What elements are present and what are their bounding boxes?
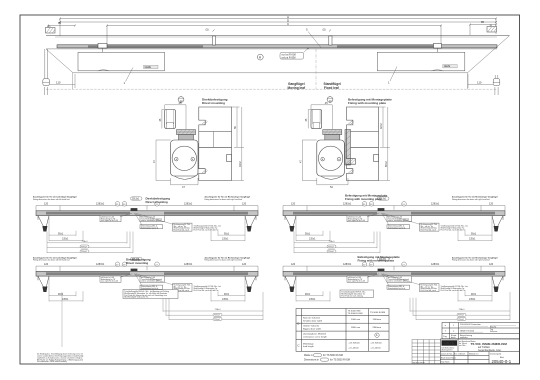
svg-text:C: C xyxy=(297,344,300,348)
left door edge vertical xyxy=(72,73,74,89)
svg-text:Die Wiedergabe u. Vervielfälti: Die Wiedergabe u. Vervielfältigung diese… xyxy=(37,352,83,355)
svg-text:718±2: 718±2 xyxy=(458,315,465,317)
revision underlines xyxy=(460,326,516,333)
detail L body circle xyxy=(172,146,196,170)
svg-text:only at R-ISM: only at R-ISM xyxy=(282,56,296,59)
svg-text:750±2: 750±2 xyxy=(458,319,465,321)
svg-text:47: 47 xyxy=(182,185,185,189)
right door edge vertical xyxy=(467,73,469,89)
svg-text:716±1: 716±1 xyxy=(459,309,466,311)
svg-text:Fixing with mounting plate: Fixing with mounting plate xyxy=(345,197,382,201)
svg-text:65±2: 65±2 xyxy=(384,161,388,167)
dimension line C xyxy=(107,25,441,27)
svg-text:GEZE: GEZE xyxy=(444,341,455,346)
svg-text:TS 500. ISM/E-ISM/R-ISM: TS 500. ISM/E-ISM/R-ISM xyxy=(471,342,508,346)
row1 left dim ovals xyxy=(80,245,89,253)
svg-text:45: 45 xyxy=(158,118,162,121)
detail R screw hole right xyxy=(337,157,341,161)
svg-text:Datum der Nor... W. 1.1 Glei: Datum der Nor... W. 1.1 Gleitsch xyxy=(441,353,465,356)
detail L top dim 45 xyxy=(165,105,186,129)
detail L rail cross-section xyxy=(165,110,176,129)
left post foot xyxy=(43,79,50,96)
svg-text:Fixed leaf: Fixed leaf xyxy=(324,86,340,90)
detail R screw hole left xyxy=(321,157,325,161)
svg-text:85: 85 xyxy=(58,21,62,25)
svg-text:= B-705mm: = B-705mm xyxy=(371,343,383,345)
svg-text:Fitting dimensions for doors w: Fitting dimensions for doors with left h… xyxy=(33,198,70,201)
svg-text:2800 mm: 2800 mm xyxy=(351,327,360,329)
frame head near bottom edge xyxy=(46,48,497,50)
fold mark line xyxy=(61,292,63,347)
svg-text:203-003-02 Datum/am: 203-003-02 Datum/am xyxy=(460,323,481,326)
svg-text:= B-705mm: = B-705mm xyxy=(349,343,361,345)
detail R left dim 45 xyxy=(308,110,311,129)
svg-text:Fitting dimensions for doors w: Fitting dimensions for doors with right … xyxy=(452,259,490,262)
detail R left dim 47 xyxy=(302,140,317,181)
svg-text:Wird Einindg 63 Gebrauchte Tw.: Wird Einindg 63 Gebrauchte Tw. xyxy=(124,296,149,299)
detail L bottom dim 47 xyxy=(171,178,199,185)
svg-text:Gegenbandseite, zwei.: Gegenbandseite, zwei. xyxy=(478,349,502,352)
svg-text:47: 47 xyxy=(298,160,302,163)
svg-text:Außengeführt: Außengeführt xyxy=(442,349,453,352)
svg-text:Kleinste Türbreite: Kleinste Türbreite xyxy=(303,317,321,320)
svg-text:Biggest door width: Biggest door width xyxy=(303,327,322,330)
svg-text:GEZE TS 5000: GEZE TS 5000 xyxy=(460,331,475,333)
detail R top dim 45 xyxy=(311,105,332,129)
svg-text:Maße in: Maße in xyxy=(304,354,313,357)
svg-text:750±2: 750±2 xyxy=(328,251,335,253)
svg-text:716±1: 716±1 xyxy=(329,241,336,243)
svg-text:5: 5 xyxy=(306,28,308,32)
svg-text:GEZE: GEZE xyxy=(444,65,451,68)
slide block left xyxy=(98,43,107,48)
hanger pin left xyxy=(212,36,215,45)
hanger pin right xyxy=(329,36,332,45)
slide rail darker segment left xyxy=(88,45,203,47)
svg-text:auf Türblatt: auf Türblatt xyxy=(478,346,490,349)
svg-text:mit Öffn...: mit Öffn... xyxy=(459,344,467,347)
arm link right xyxy=(437,48,439,52)
extension line left xyxy=(59,19,61,37)
svg-text:42±2: 42±2 xyxy=(379,123,383,129)
item leader 5 top xyxy=(308,32,321,48)
right post foot xyxy=(493,79,500,96)
svg-text:1: 1 xyxy=(445,331,447,333)
dim 110 left xyxy=(50,74,75,88)
svg-text:lead length: lead length xyxy=(303,345,314,348)
row1 left stacked dims xyxy=(47,232,133,254)
wall anchor left (hatched) xyxy=(46,28,56,34)
detail L left dim 45 xyxy=(162,110,165,129)
svg-text:Maßstab 1:1: Maßstab 1:1 xyxy=(469,353,478,356)
svg-text:750±2: 750±2 xyxy=(214,319,221,321)
svg-text:(5): (5) xyxy=(323,28,326,32)
dim 85 left xyxy=(48,26,75,34)
detail L header circle mark xyxy=(178,97,184,103)
svg-text:TS 5000 ISM: TS 5000 ISM xyxy=(348,311,361,313)
svg-text:Fitting dimensions for doors w: Fitting dimensions for doors with right … xyxy=(205,259,243,262)
detail R right dims xyxy=(379,107,391,181)
svg-text:= D-10mm: = D-10mm xyxy=(371,348,381,350)
svg-text:Fitting dimensions for doors w: Fitting dimensions for doors with left h… xyxy=(33,259,70,262)
quadrant row2 right xyxy=(283,257,505,301)
svg-text:Mittellänge: Mittellänge xyxy=(303,342,314,345)
row2 left wide note box xyxy=(123,290,178,299)
doors bottom dashed edge xyxy=(46,88,497,90)
detail L closer body xyxy=(171,140,199,176)
svg-text:1: 1 xyxy=(453,325,455,327)
quadrant row2 left xyxy=(36,257,258,301)
svg-text:750±2: 750±2 xyxy=(81,251,88,253)
svg-text:718±2: 718±2 xyxy=(81,246,88,248)
right post shaft xyxy=(495,75,498,79)
svg-text:1000 mm: 1000 mm xyxy=(351,319,360,321)
row2 right stacked dims xyxy=(410,292,510,320)
detail L body bottom cap xyxy=(175,176,196,179)
GEZE label right closer xyxy=(443,65,458,68)
svg-text:718±2: 718±2 xyxy=(214,315,221,317)
extension line right xyxy=(495,19,497,35)
item leader 1 right xyxy=(390,67,397,82)
svg-text:abzulängbares Mittelteil: abzulängbares Mittelteil xyxy=(303,333,326,336)
svg-text:Direct mounting: Direct mounting xyxy=(146,200,168,204)
doors top near edge xyxy=(73,72,468,74)
svg-text:20540-0-1: 20540-0-1 xyxy=(492,359,512,364)
svg-text:716±1: 716±1 xyxy=(215,309,222,311)
svg-text:Fixing with mounting plate: Fixing with mounting plate xyxy=(358,258,395,262)
row2 right dim ovals xyxy=(457,313,466,320)
row2 left stacked dims xyxy=(163,292,263,320)
detail R body bottom cap xyxy=(321,176,342,179)
note box nur bei R-ISM xyxy=(280,53,304,60)
detail R mounting plate xyxy=(345,130,351,166)
table frame xyxy=(296,309,389,352)
svg-text:for TS 5000 R-ISM: for TS 5000 R-ISM xyxy=(330,359,350,362)
svg-text:nur bei R-ISM: nur bei R-ISM xyxy=(282,54,296,57)
right perspective diagonal xyxy=(468,36,510,73)
svg-text:A: A xyxy=(259,55,262,59)
detail L screw hole left xyxy=(175,157,179,161)
door closer body left xyxy=(78,52,165,71)
GEZE logo xyxy=(442,340,458,345)
svg-text:(5): (5) xyxy=(206,28,209,32)
detail R closer body xyxy=(317,140,345,176)
detail L right dims xyxy=(232,107,245,181)
svg-text:Referenz: Referenz xyxy=(490,331,497,333)
svg-text:a: a xyxy=(453,331,455,333)
svg-text:2800mm: 2800mm xyxy=(373,327,382,329)
quadrant row1 right xyxy=(283,197,505,241)
detail L frame screw tab hatches xyxy=(202,121,208,174)
detail L left dim 47 xyxy=(156,140,171,181)
row2 left dim ovals xyxy=(213,313,222,320)
door closer body right xyxy=(377,52,465,71)
row2 right wide note box xyxy=(340,290,374,298)
svg-text:56: 56 xyxy=(233,126,237,129)
dimension line A xyxy=(60,18,496,20)
item leader 1 left xyxy=(126,68,134,82)
leaf divider centerline xyxy=(315,49,317,89)
svg-text:Größte Türbreite: Größte Türbreite xyxy=(303,325,320,328)
svg-text:Bearb Datum Name: Bearb Datum Name xyxy=(441,357,456,360)
extension line C right xyxy=(440,26,442,45)
svg-text:45: 45 xyxy=(304,118,308,121)
slide block right xyxy=(434,43,442,48)
svg-text:Smallest door width: Smallest door width xyxy=(303,320,323,323)
detail L arm bracket xyxy=(177,130,196,141)
detail R header circle mark xyxy=(327,97,333,103)
dim 110 right xyxy=(468,74,493,88)
svg-text:1500mm: 1500mm xyxy=(373,319,382,321)
svg-text:Tag: Tag xyxy=(443,336,447,338)
svg-text:52: 52 xyxy=(330,185,333,189)
slide rail band xyxy=(57,45,497,48)
detail R frame screw tab hatches xyxy=(348,121,355,174)
left perspective diagonal xyxy=(46,49,73,73)
pinion arc right xyxy=(432,70,444,71)
svg-text:Zeichnungs-Nr.: Zeichnungs-Nr. xyxy=(490,353,502,356)
arm link left xyxy=(102,48,104,52)
pinion arc left xyxy=(98,70,110,71)
row1 right dim ovals xyxy=(327,245,336,253)
svg-text:Direct mounting: Direct mounting xyxy=(202,101,225,105)
detail L screw hole right xyxy=(191,157,195,161)
quadrant row1 left xyxy=(36,197,258,241)
position mark circle A xyxy=(257,54,263,60)
svg-text:a: a xyxy=(445,325,447,327)
dimension line D xyxy=(60,21,496,23)
svg-text:Prüf. Prüel öd. noch zulässig.: Prüf. Prüel öd. noch zulässig. xyxy=(341,294,363,297)
svg-text:= D-10mm: = D-10mm xyxy=(349,348,359,350)
slide rail darker segment right xyxy=(337,45,440,47)
svg-text:Blatt-Nr.: Blatt-Nr. xyxy=(490,325,497,328)
svg-text:716±1: 716±1 xyxy=(82,241,89,243)
dim end ticks xyxy=(47,18,497,32)
svg-text:TS 5000 E-ISM: TS 5000 E-ISM xyxy=(348,313,363,315)
svg-text:Moving leaf: Moving leaf xyxy=(288,86,306,90)
frame head top edge (far) xyxy=(46,35,510,37)
row1 right stacked dims xyxy=(294,232,380,254)
svg-text:centerpiece cut to length: centerpiece cut to length xyxy=(303,335,328,338)
svg-text:GEZE: GEZE xyxy=(145,66,152,69)
svg-text:für TS 5000 R-ISM: für TS 5000 R-ISM xyxy=(323,354,343,357)
svg-text:durch: durch xyxy=(451,336,456,339)
left post shaft xyxy=(45,49,48,79)
detail R bottom dim 52 xyxy=(317,178,348,185)
svg-text:718±2: 718±2 xyxy=(328,246,335,248)
svg-text:TS 5000 R-ISM: TS 5000 R-ISM xyxy=(370,312,385,314)
svg-text:Fitting dimensions for doors w: Fitting dimensions for doors with right … xyxy=(205,198,243,201)
dim 85 right xyxy=(470,25,496,36)
svg-text:Fitting dimensions for doors w: Fitting dimensions for doors with right … xyxy=(452,198,490,201)
svg-text:110: 110 xyxy=(56,81,61,85)
svg-text:47: 47 xyxy=(152,160,156,163)
svg-text:1: 1 xyxy=(388,81,390,85)
svg-text:1: 1 xyxy=(124,81,126,85)
detail R frame profile xyxy=(347,107,379,181)
wall anchor right (hatched) xyxy=(487,27,497,33)
GEZE label left closer xyxy=(144,65,159,68)
svg-text:B: B xyxy=(297,322,299,326)
svg-text:44±2: 44±2 xyxy=(238,161,242,167)
detail R arm bracket xyxy=(323,130,342,141)
svg-text:Gepr Norm: Gepr Norm xyxy=(441,361,450,364)
svg-text:Dimensions in: Dimensions in xyxy=(304,359,320,362)
svg-text:85: 85 xyxy=(481,20,485,24)
detail R rail cross-section xyxy=(311,110,322,129)
svg-text:Fixing with mounting plate: Fixing with mounting plate xyxy=(348,101,386,105)
svg-text:üm ün üs ün üm: üm ün üs ün üm xyxy=(413,362,426,364)
detail L frame profile xyxy=(199,107,232,181)
svg-text:Direct mounting: Direct mounting xyxy=(126,261,148,265)
svg-text:A: A xyxy=(376,334,378,337)
extension line C left xyxy=(106,26,108,45)
detail R body circle xyxy=(318,146,342,170)
svg-text:110: 110 xyxy=(477,81,482,85)
